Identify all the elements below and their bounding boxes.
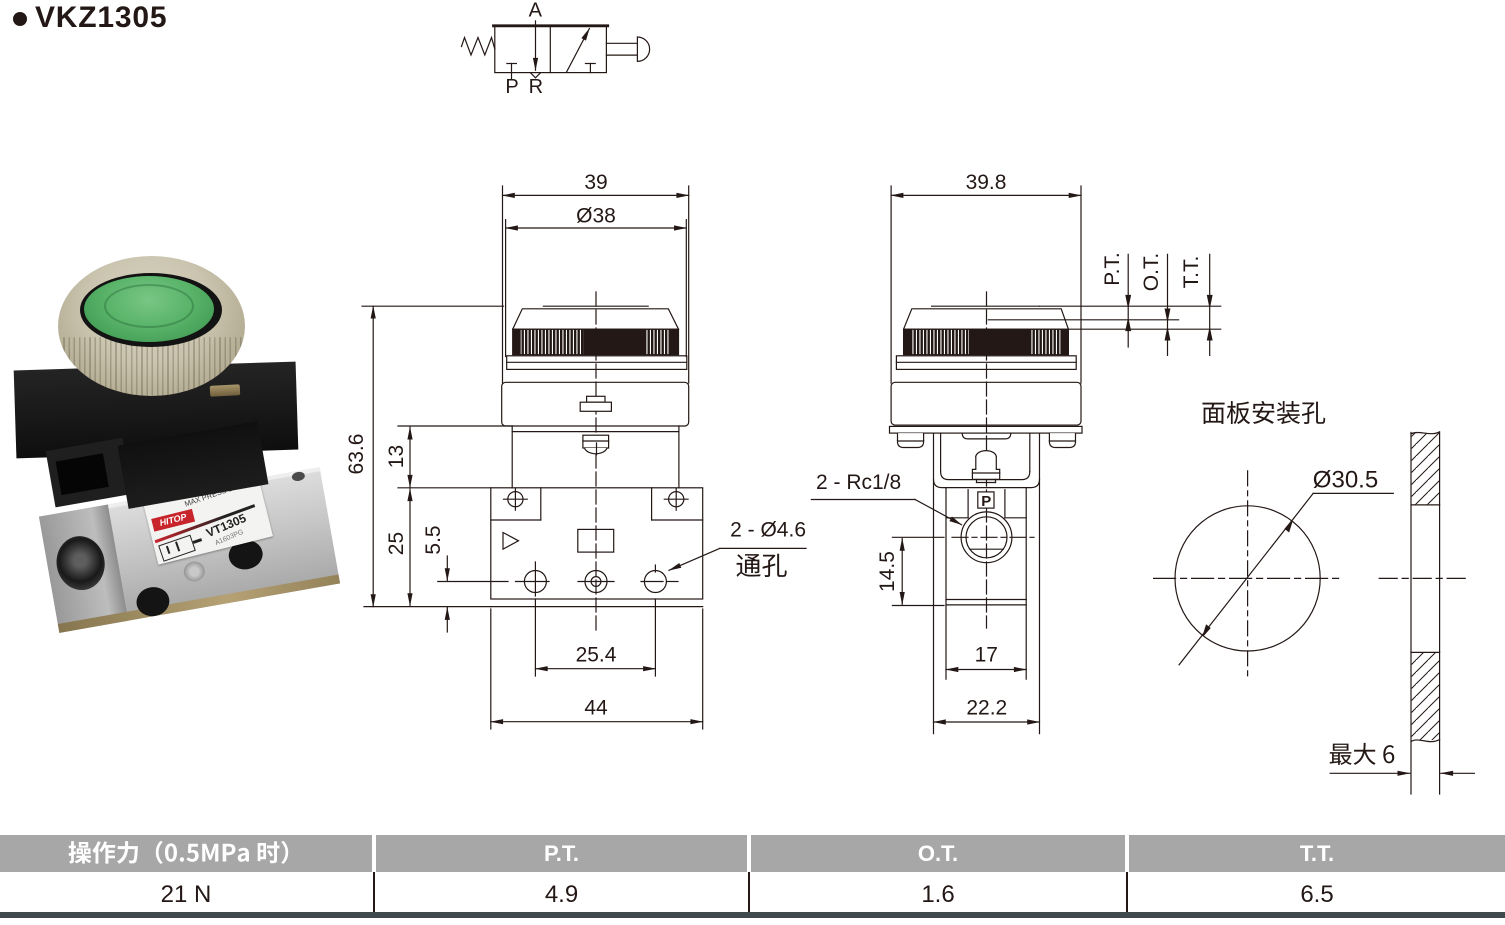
FV mounting screw left — [504, 488, 528, 510]
SV panel foot right — [1049, 433, 1075, 447]
valve symbol exhaust check V — [531, 73, 541, 78]
SV port letter box P — [978, 492, 994, 510]
FV mounting screw right — [664, 488, 688, 510]
svg-text:R: R — [529, 76, 543, 98]
SV O.T. dimension — [1140, 253, 1170, 356]
photo body left face — [38, 504, 127, 632]
FV dimension 44 — [491, 697, 703, 722]
svg-text:O.T.: O.T. — [1140, 253, 1163, 292]
title bullet — [13, 12, 27, 26]
photo label HITOP red logo — [151, 509, 195, 532]
SV upper body block — [891, 382, 1081, 425]
svg-text:44: 44 — [584, 697, 608, 720]
table data 6.5 — [1129, 872, 1505, 912]
FV extension lines dia 38 — [506, 220, 687, 357]
svg-text:14.5: 14.5 — [876, 551, 899, 592]
table data 4.9 — [376, 872, 747, 912]
valve symbol right cell blocked tee — [586, 64, 596, 73]
title VKZ1305 — [35, 1, 167, 35]
FV base corner step left — [491, 488, 541, 520]
SV body shoulder notch right — [1005, 490, 1026, 518]
valve symbol return spring — [462, 38, 495, 56]
photo top small hole — [291, 471, 305, 482]
SV leader 2-Rc1/8 — [811, 471, 961, 525]
valve symbol port A stub — [535, 21, 537, 26]
SV bracket outer bend — [934, 479, 1040, 487]
photo green button cap — [84, 276, 214, 342]
FV leader 2-dia4.6 — [669, 519, 806, 571]
svg-text:25.4: 25.4 — [576, 644, 617, 667]
svg-text:63.6: 63.6 — [345, 434, 368, 475]
panel hole horizontal centerline — [1154, 577, 1340, 579]
svg-text:5.5: 5.5 — [422, 525, 445, 554]
svg-text:A: A — [529, 0, 543, 22]
valve symbol body box — [494, 26, 608, 73]
photo front hole lower — [134, 584, 172, 618]
FV vertical centerline — [595, 292, 597, 632]
FV mounting hole right — [644, 565, 666, 593]
svg-text:13: 13 — [385, 445, 408, 468]
table header cell 操作力 — [0, 835, 372, 872]
spec table — [0, 835, 1505, 872]
FV latch tab detail — [580, 396, 611, 411]
table header cell T.T. — [1129, 835, 1505, 872]
panel title 面板安装孔 — [1202, 401, 1325, 424]
FV flow direction triangle — [503, 533, 519, 550]
table header cell P.T. — [376, 835, 747, 872]
panel hole vertical centerline — [1247, 471, 1249, 680]
FV button cap top edge — [543, 305, 648, 307]
FV dimension dia38 — [506, 205, 687, 229]
valve symbol blocked port P tee — [507, 64, 517, 79]
FV base block — [491, 488, 703, 599]
photo label mini schematic — [158, 535, 196, 562]
panel section hatch bottom — [1411, 652, 1440, 741]
SV travel reference line bottom — [1068, 328, 1220, 330]
photo black housing left — [46, 438, 133, 508]
FV lower neck housing — [512, 426, 679, 488]
FV knurled ring band — [513, 329, 679, 355]
FV dim 13 extension line — [398, 425, 512, 427]
photo brass base strip — [57, 574, 339, 632]
photo front hole right — [226, 538, 265, 572]
svg-text:2 - Ø4.6: 2 - Ø4.6 — [730, 519, 806, 542]
FV base bottom strip — [491, 606, 703, 608]
photo body top highlight — [38, 467, 319, 520]
SV valve body sides — [946, 488, 1026, 680]
FV dimension 13 — [385, 427, 410, 487]
FV base corner step right — [652, 488, 703, 520]
panel section strip sides — [1411, 433, 1440, 795]
svg-text:P: P — [981, 493, 991, 510]
SV knurled ring band — [904, 329, 1069, 355]
FV dimension 5.5 — [422, 525, 447, 632]
svg-text:22.2: 22.2 — [966, 697, 1007, 720]
SV vertical centerline — [986, 292, 988, 628]
valve symbol flow arrow A to R — [535, 26, 537, 70]
SV body step lines — [946, 600, 1026, 605]
photo label red swoosh — [154, 504, 255, 543]
table data 1.6 — [751, 872, 1125, 912]
photo housing port cavity — [56, 453, 109, 495]
FV label through-hole 通孔 — [737, 554, 787, 577]
SV dimension 39.8 — [891, 171, 1081, 195]
photo beige ring knurl — [58, 256, 245, 396]
photo beige bezel ring — [58, 256, 245, 396]
svg-text:P.T.: P.T. — [1101, 252, 1124, 285]
photo valve metal body — [38, 467, 339, 633]
SV T.T. dimension — [1180, 254, 1212, 355]
valve symbol push-button head — [637, 37, 649, 61]
SV override screw side — [972, 451, 999, 483]
table data separators — [373, 872, 375, 912]
FV hole centerline horizontal — [438, 581, 678, 583]
panel section centerline — [1379, 577, 1468, 579]
SV P.T. dimension — [1101, 252, 1130, 347]
FV button bezel trapezoid — [513, 309, 679, 329]
valve symbol push-button actuator stem — [606, 43, 636, 55]
SV bracket outer sides — [934, 433, 1040, 734]
SV flange center notch — [962, 433, 1011, 439]
FV dimension 25 — [385, 489, 410, 606]
SV button cap top edge — [932, 305, 1040, 307]
svg-text:25: 25 — [385, 532, 408, 555]
svg-text:Ø30.5: Ø30.5 — [1313, 467, 1378, 494]
FV dim 63.6 extension lines — [362, 306, 504, 606]
SV dimension 17 — [946, 644, 1026, 670]
SV dimension 14.5 — [876, 539, 902, 605]
photo brass contact pin — [210, 384, 241, 397]
FV upper body block — [502, 382, 689, 426]
FV nameplate rectangle — [578, 529, 614, 552]
photo black bezel square — [14, 362, 299, 459]
photo black gap ring — [80, 273, 222, 347]
SV travel reference line top — [1039, 305, 1220, 307]
svg-text:T.T.: T.T. — [1180, 256, 1203, 289]
svg-text:Ø38: Ø38 — [576, 205, 616, 228]
photo green button inner ring — [104, 284, 194, 328]
FV dim 25.4 extension lines — [535, 599, 655, 676]
table data 21 N — [0, 872, 372, 912]
FV override screw — [583, 435, 609, 455]
photo label A1603PG — [214, 520, 265, 547]
SV dimension 22.2 — [934, 697, 1040, 723]
SV extension lines width 39.8 — [891, 186, 1081, 383]
SV port circle Rc1/8 — [961, 512, 1012, 563]
panel hole circle — [1175, 506, 1320, 651]
FV bezel washer ring — [507, 356, 687, 370]
panel thickness dimension — [1330, 772, 1474, 774]
svg-text:39.8: 39.8 — [966, 171, 1007, 194]
bottom rule bar — [0, 912, 1505, 918]
table header gaps — [372, 835, 376, 872]
FV port hole center — [585, 571, 607, 593]
SV travel reference line mid — [988, 319, 1178, 321]
FV port hole left — [524, 562, 546, 596]
SV panel foot left — [898, 433, 924, 447]
photo label VT1305 — [204, 504, 265, 540]
SV port centerline horizontal — [952, 536, 1034, 538]
svg-text:P: P — [505, 76, 518, 98]
FV dim 44 extension lines — [491, 609, 703, 729]
FV dim 25 extension line — [398, 487, 491, 489]
SV mounting flange — [890, 426, 1083, 433]
SV body shoulder notch left — [946, 490, 968, 518]
photo body screw dot — [182, 560, 206, 583]
photo black housing center — [118, 421, 269, 509]
FV dimension 39 — [503, 171, 689, 195]
table header cell O.T. — [751, 835, 1125, 872]
SV button bezel trapezoid — [904, 309, 1069, 329]
SV bezel washer ring — [896, 356, 1076, 370]
SV bracket inner bend — [941, 433, 1030, 480]
FV dimension 25.4 — [535, 644, 655, 669]
photo threaded port — [52, 532, 109, 594]
photo white label — [142, 474, 272, 565]
valve symbol right cell flow arrow — [567, 29, 590, 72]
panel thickness label 最大6 — [1330, 743, 1395, 765]
FV dimension 63.6 — [345, 306, 373, 606]
svg-text:39: 39 — [584, 171, 607, 194]
panel hole diameter leader — [1179, 493, 1393, 664]
svg-text:2 - Rc1/8: 2 - Rc1/8 — [816, 471, 901, 494]
FV extension lines width 39 — [503, 186, 689, 383]
photo label MAX PRESS text — [183, 475, 258, 508]
SV dim 14.5 extension lines — [892, 537, 944, 605]
panel section hatch top — [1411, 432, 1440, 505]
svg-text:17: 17 — [975, 644, 998, 667]
